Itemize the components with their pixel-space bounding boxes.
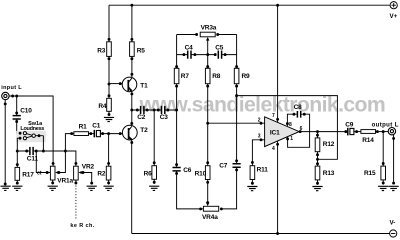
capacitor C9 (electrolytic output) [344, 130, 347, 133]
wire: output pin 6 row [299, 131, 346, 133]
junction: chain to R7/C6 column [175, 109, 178, 112]
gang link: dashed line to R channel [75, 186, 77, 219]
resistor R1 [70, 132, 73, 135]
resistor R13 [315, 166, 320, 180]
capacitor C4 [188, 51, 191, 59]
capacitor C5 [218, 51, 221, 59]
switch Sw1a (loudness) [16, 131, 46, 142]
potentiometer VR1a (volume, with loudness tap) [50, 166, 55, 180]
wire: input jack shield down to ground [4, 100, 6, 185]
capacitor C1 (electrolytic) [93, 130, 95, 137]
svg-text:V+: V+ [390, 13, 398, 20]
svg-text:2: 2 [258, 117, 261, 123]
wire: input jack to C10 node and riser to VR1a top [9, 96, 53, 166]
ground (R17) [12, 186, 22, 190]
svg-text:ct: ct [37, 171, 42, 177]
wire: R5 to T1 collector [131, 56, 133, 77]
ground (VR1a bottom) [48, 186, 58, 190]
wire: C11 row / tone node row [17, 151, 76, 166]
transistor T1 [122, 77, 137, 92]
wire: C2/C3 coupling chain row [132, 109, 177, 111]
wire: IC1 pin 4 down to V- rail [277, 141, 279, 234]
svg-text:R12: R12 [323, 141, 335, 148]
wire: ct tap riser from C11 row to VR1a tap [36, 151, 50, 173]
resistor R9 [235, 65, 238, 68]
capacitor C3 [162, 106, 165, 114]
wire: R9 column to feedback corner and down to C7 [236, 84, 238, 164]
wire: VR1a wiper to R1 node [58, 151, 65, 173]
resistor R17 [16, 151, 18, 167]
svg-text:C4: C4 [185, 44, 194, 51]
capacitor C2 [141, 106, 144, 114]
svg-text:input L: input L [1, 85, 22, 91]
svg-text:1: 1 [290, 136, 293, 142]
svg-text:VR4a: VR4a [202, 214, 218, 221]
capacitor C7 [233, 164, 241, 167]
junction dots on top rail [130, 4, 279, 7]
ground (VR2 wiper) [87, 186, 97, 190]
ground (R2) [104, 186, 114, 190]
svg-text:R14: R14 [362, 137, 374, 144]
wire: feedback from R9 node to R12/R13 junction [237, 96, 338, 160]
capacitor C11 [30, 147, 33, 155]
svg-text:VR3a: VR3a [201, 24, 217, 31]
svg-text:C5: C5 [215, 44, 224, 51]
svg-text:C6: C6 [183, 167, 192, 174]
wire: C4/C5 row [177, 35, 237, 69]
wire: base node to T1 [109, 83, 122, 85]
V+ terminal [390, 2, 397, 9]
op-amp IC1 [265, 117, 300, 147]
junction: R6 tap on chain [153, 109, 156, 112]
svg-text:C8: C8 [294, 104, 303, 111]
resistor R2 [108, 134, 110, 167]
wire: R10 to VR4a wiper [207, 180, 209, 203]
svg-text:R15: R15 [364, 170, 376, 177]
svg-text:R13: R13 [323, 170, 335, 177]
wire: R3 to R4 / T1 base node [108, 56, 110, 98]
wire: R12 to R13 / feedback node [317, 152, 319, 166]
svg-text:VR2: VR2 [82, 164, 95, 171]
wire: VR2 wiper to ground [81, 173, 91, 184]
wire: R14 to output jack [376, 131, 389, 133]
capacitor C6 [173, 168, 181, 171]
svg-text:C3: C3 [160, 114, 169, 121]
svg-text:R1: R1 [79, 124, 88, 131]
potentiometer VR4a (bass) [203, 206, 218, 211]
svg-text:R9: R9 [242, 73, 251, 80]
potentiometer VR2 (trimmer, ganged dashed to R channel) [74, 166, 79, 180]
wire: C7 to VR4a right [221, 167, 237, 209]
svg-text:7: 7 [272, 113, 275, 119]
svg-text:C1: C1 [92, 123, 101, 130]
output L connector J2 [388, 128, 395, 135]
resistor R10 [207, 84, 209, 166]
wire: pin 2 input row from R8/R10 column [208, 122, 265, 124]
svg-text:Loudness: Loudness [20, 126, 44, 132]
capacitor C8 (pin8 to pin1/out compensation) [287, 114, 296, 126]
svg-text:IC1: IC1 [270, 129, 280, 136]
wire: top V+ supply rail [109, 4, 390, 6]
resistor R12 [317, 132, 319, 138]
svg-text:C10: C10 [20, 107, 32, 114]
resistor R14 [361, 130, 376, 134]
transistor T2 [122, 125, 137, 140]
junction: pin4 line to V- rail [276, 232, 279, 235]
ground (output jack) [389, 186, 399, 190]
VR3a wiper [207, 40, 209, 54]
input L connector J1 [2, 92, 9, 99]
wire: T1 emitter down to C2 node and T2 collector [131, 92, 133, 126]
svg-text:R11: R11 [257, 167, 269, 174]
wire: output jack shield to ground [393, 135, 395, 184]
potentiometer VR3a (treble) [177, 34, 237, 36]
V- terminal [390, 230, 397, 237]
svg-text:C9: C9 [345, 121, 354, 128]
resistor R8 [206, 65, 209, 68]
svg-text:R8: R8 [212, 73, 221, 80]
ground (input shield) [1, 186, 11, 190]
wire: switch lower throw down to R17/C11 node [17, 138, 20, 151]
resistor R5 [131, 5, 133, 42]
wire: V+ rail down to IC1 pin 7 [277, 5, 279, 122]
svg-text:R2: R2 [97, 170, 106, 177]
resistor R15 [382, 132, 384, 167]
wire: T2 emitter down to V- rail [131, 140, 133, 234]
svg-text:output L: output L [372, 123, 399, 129]
ground (R13) [312, 187, 322, 191]
wire: R1 input row [65, 134, 74, 151]
svg-text:T2: T2 [140, 127, 148, 134]
svg-text:T1: T1 [140, 82, 148, 89]
wire: C6 to VR4a left [177, 171, 204, 209]
svg-text:4: 4 [272, 146, 275, 152]
svg-text:V-: V- [390, 220, 396, 227]
resistor R11 [250, 166, 255, 180]
svg-text:R17: R17 [22, 172, 34, 179]
capacitor C10 [16, 96, 18, 115]
wire: C1 to T2 base [100, 133, 122, 135]
wire: R1 to C1 [89, 133, 95, 135]
resistor R3 [108, 5, 110, 42]
svg-text:R7: R7 [181, 73, 190, 80]
svg-text:R4: R4 [98, 103, 107, 110]
svg-text:R6: R6 [144, 170, 153, 177]
svg-text:8: 8 [289, 122, 292, 128]
ground (R4) [104, 117, 114, 121]
wire: R7 column down through C3 tap to C6 [176, 84, 178, 168]
resistor R7 [175, 65, 178, 68]
svg-text:3: 3 [258, 134, 261, 140]
svg-text:R5: R5 [137, 47, 146, 54]
ground (R11) [247, 187, 257, 191]
wire: pin 3 row to R11 [252, 140, 264, 166]
ground (R6) [149, 186, 159, 190]
ground (R15) [378, 186, 388, 190]
svg-text:www.sandielektronik.com: www.sandielektronik.com [139, 94, 386, 117]
wire: bottom V- rail [132, 233, 390, 235]
wire: switch common down to C11 row [42, 136, 44, 151]
resistor R4 [108, 94, 111, 97]
junction: VR3a wiper / R8 node [206, 53, 209, 56]
svg-text:C2: C2 [137, 114, 146, 121]
svg-text:C7: C7 [219, 162, 228, 169]
svg-text:ke R ch.: ke R ch. [70, 223, 94, 229]
resistor R6 [153, 110, 155, 166]
svg-text:R10: R10 [195, 170, 207, 177]
svg-text:R3: R3 [97, 47, 106, 54]
svg-text:VR1a: VR1a [57, 178, 73, 185]
